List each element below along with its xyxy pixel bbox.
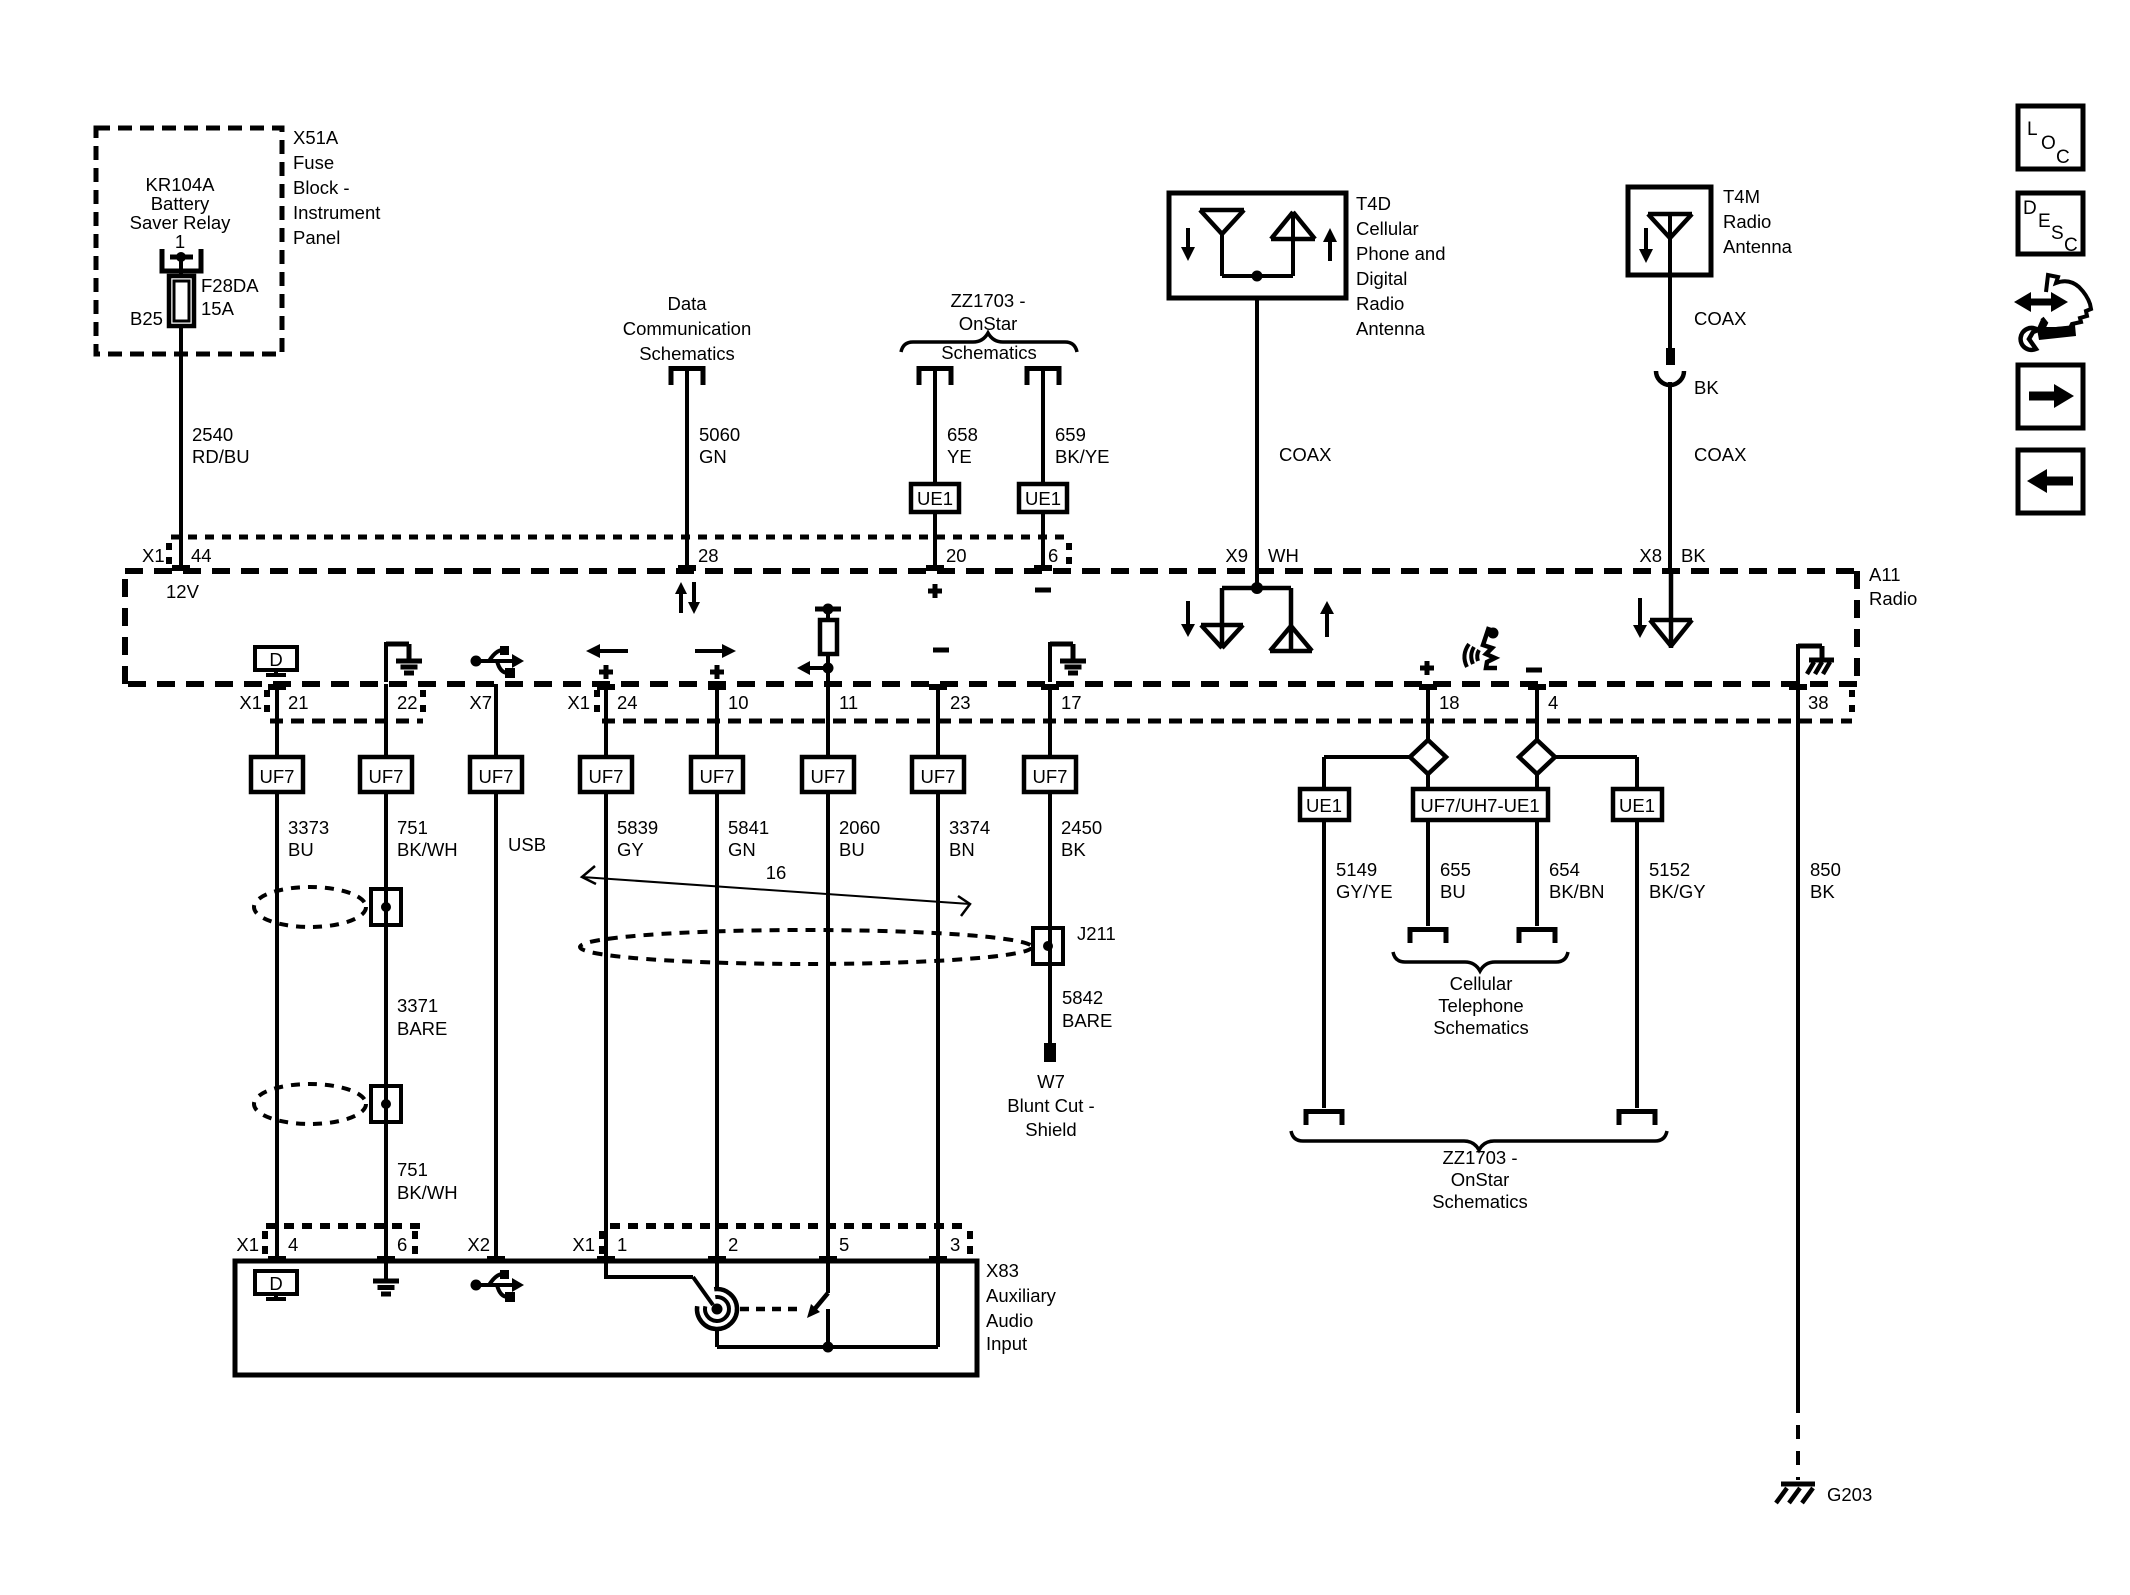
svg-text:Schematics: Schematics	[941, 342, 1037, 363]
svg-text:Digital: Digital	[1356, 268, 1407, 289]
svg-text:5839: 5839	[617, 817, 658, 838]
wire 658 YE upper	[933, 371, 937, 484]
svg-text:E: E	[2038, 211, 2051, 232]
svg-text:44: 44	[191, 545, 212, 566]
icon chassis ground pin 38	[1796, 644, 1800, 684]
pin 18 radio	[1419, 684, 1437, 690]
svg-text:X83: X83	[986, 1260, 1019, 1281]
svg-text:12V: 12V	[166, 581, 200, 602]
svg-text:UF7: UF7	[921, 766, 956, 787]
svg-text:X1: X1	[142, 545, 165, 566]
svg-text:WH: WH	[1268, 545, 1299, 566]
svg-text:UF7: UF7	[369, 766, 404, 787]
svg-text:658: 658	[947, 424, 978, 445]
svg-text:BARE: BARE	[1062, 1010, 1112, 1031]
svg-text:UF7: UF7	[700, 766, 735, 787]
svg-text:Auxiliary: Auxiliary	[986, 1285, 1057, 1306]
wire coax T4M lower to radio pin X8	[1668, 382, 1672, 568]
wire UF7 down column 938	[936, 792, 940, 1261]
svg-text:BK/YE: BK/YE	[1055, 446, 1110, 467]
svg-text:659: 659	[1055, 424, 1086, 445]
inline connector UF7 4	[580, 757, 632, 792]
svg-text:3: 3	[950, 1234, 960, 1255]
wire 658 YE lower to radio pin 20	[933, 512, 937, 568]
pin 6 radio	[1034, 565, 1052, 571]
svg-text:BK/WH: BK/WH	[397, 839, 458, 860]
svg-text:20: 20	[946, 545, 967, 566]
svg-text:BU: BU	[839, 839, 865, 860]
wire radio pin 18 to diamond	[1426, 684, 1430, 740]
antenna T4M box	[1628, 187, 1711, 275]
svg-text:2450: 2450	[1061, 817, 1102, 838]
splice crimp upper wire 751	[371, 889, 401, 925]
svg-text:Communication: Communication	[623, 318, 752, 339]
wire diamond 18 to UE1 left	[1324, 755, 1410, 759]
svg-text:3374: 3374	[949, 817, 990, 838]
fuse F28DA 15A	[169, 276, 194, 326]
svg-text:655: 655	[1440, 859, 1471, 880]
leader line 16	[582, 877, 970, 904]
auxiliary audio input X83 box	[235, 1261, 977, 1375]
wire 659 BK/YE upper	[1041, 371, 1045, 484]
wire 2450 BK to splice J211	[1048, 792, 1052, 1043]
svg-text:D: D	[269, 649, 282, 670]
pin 28 radio	[678, 565, 696, 571]
svg-text:654: 654	[1549, 859, 1580, 880]
icon vehicle data wrench	[2028, 299, 2054, 306]
plus sign pin 20	[928, 589, 942, 594]
svg-text:Cellular: Cellular	[1450, 973, 1513, 994]
svg-text:A11: A11	[1869, 564, 1901, 585]
svg-text:ZZ1703 -: ZZ1703 -	[950, 290, 1025, 311]
svg-text:6: 6	[1048, 545, 1058, 566]
pin 10 radio	[708, 684, 726, 690]
wire 850 BK	[1796, 684, 1800, 1399]
icon earth ground pin 17	[1048, 642, 1052, 682]
inline connector UE1 wire 658	[911, 484, 959, 512]
svg-text:USB: USB	[508, 834, 546, 855]
svg-text:X1: X1	[572, 1234, 595, 1255]
icon microphone speaker	[1464, 644, 1469, 667]
wire 5842 BARE	[1048, 964, 1052, 1043]
svg-text:5: 5	[839, 1234, 849, 1255]
svg-text:21: 21	[288, 692, 309, 713]
icon earth ground X83 pin 6	[384, 1261, 388, 1279]
shield ellipse drain	[580, 930, 1032, 964]
svg-text:X1: X1	[239, 692, 262, 713]
svg-text:C: C	[2056, 147, 2070, 168]
pin 21 radio	[268, 684, 286, 690]
svg-text:Schematics: Schematics	[1433, 1017, 1529, 1038]
wire radio pin 17 to UF7	[1048, 684, 1052, 757]
svg-text:D: D	[2023, 198, 2037, 219]
svg-text:23: 23	[950, 692, 971, 713]
arrow transmit T4D	[1328, 242, 1332, 261]
pin 44 radio	[172, 565, 190, 571]
svg-text:BK/GY: BK/GY	[1649, 881, 1706, 902]
svg-text:850: 850	[1810, 859, 1841, 880]
icon box LOC	[2018, 106, 2083, 169]
svg-text:2540: 2540	[192, 424, 233, 445]
svg-text:UE1: UE1	[1306, 795, 1342, 816]
svg-text:S: S	[2051, 223, 2064, 244]
terminal wire 5152	[1619, 1112, 1655, 1126]
svg-text:Cellular: Cellular	[1356, 218, 1419, 239]
svg-text:Radio: Radio	[1869, 588, 1917, 609]
svg-text:T4D: T4D	[1356, 193, 1391, 214]
pin 24 radio	[597, 684, 615, 690]
svg-text:5841: 5841	[728, 817, 769, 838]
connector line X1 bottom left	[270, 719, 423, 724]
svg-text:Schematics: Schematics	[639, 343, 735, 364]
svg-text:BU: BU	[1440, 881, 1466, 902]
svg-text:D: D	[269, 1273, 282, 1294]
svg-text:X8: X8	[1639, 545, 1662, 566]
svg-text:2: 2	[728, 1234, 738, 1255]
wire 659 BK/YE lower to radio pin 6	[1041, 512, 1045, 568]
svg-text:6: 6	[397, 1234, 407, 1255]
svg-text:5152: 5152	[1649, 859, 1690, 880]
svg-text:BARE: BARE	[397, 1018, 447, 1039]
audio jack X83	[697, 1289, 737, 1329]
pin 4 radio	[1528, 684, 1546, 690]
relay KR104A contact symbol	[162, 249, 201, 271]
antenna transmit radio X9	[1289, 588, 1294, 651]
wire 850 BK dashed section	[1796, 1399, 1800, 1480]
svg-text:OnStar: OnStar	[1451, 1169, 1510, 1190]
icon arrow left pin 24	[600, 649, 628, 653]
svg-text:751: 751	[397, 1159, 428, 1180]
pin 17 radio	[1041, 684, 1059, 690]
svg-text:2060: 2060	[839, 817, 880, 838]
minus sign pin 6	[1035, 588, 1051, 593]
svg-text:GN: GN	[728, 839, 756, 860]
switch link dashed X83	[740, 1307, 802, 1312]
diamond splice pin 4	[1519, 740, 1555, 774]
pin 20 radio	[926, 565, 944, 571]
pin flare X83 column 606	[597, 1256, 615, 1262]
svg-text:3371: 3371	[397, 995, 438, 1016]
wire 5149 GY/YE	[1322, 820, 1326, 1108]
svg-text:F28DA: F28DA	[201, 275, 259, 296]
svg-text:UF7: UF7	[811, 766, 846, 787]
svg-text:17: 17	[1061, 692, 1082, 713]
connector line X83 X1 right	[610, 1223, 965, 1229]
plus sign pin 24	[599, 670, 613, 675]
junction dot X9 splitter	[1251, 582, 1263, 594]
wire 2540 RD/BU fuse to radio pin 44	[179, 326, 183, 568]
svg-text:BK: BK	[1061, 839, 1086, 860]
svg-text:3373: 3373	[288, 817, 329, 838]
connector line X83 X1 left	[266, 1223, 420, 1229]
pin flare X83 column 828	[819, 1256, 837, 1262]
wire UF7 down column 606	[604, 792, 608, 1261]
svg-text:BN: BN	[949, 839, 975, 860]
inline coax connector T4M	[1666, 348, 1675, 365]
icon usb pin X7	[471, 656, 482, 667]
inline connector UF7/UH7-UE1	[1413, 789, 1548, 820]
svg-text:Telephone: Telephone	[1438, 995, 1523, 1016]
svg-text:10: 10	[728, 692, 749, 713]
wire radio pin 23 to UF7	[936, 684, 940, 757]
icon usb X83 pin X2	[471, 1280, 482, 1291]
wire coax T4M upper	[1668, 275, 1672, 350]
icon box arrow right	[2018, 365, 2083, 428]
antenna T4D box	[1169, 193, 1346, 298]
svg-text:751: 751	[397, 817, 428, 838]
svg-text:Audio: Audio	[986, 1310, 1033, 1331]
ground G203	[1781, 1482, 1815, 1487]
connector line X1 bottom right	[602, 719, 1852, 724]
wire UF7 down column 496	[494, 792, 498, 1261]
svg-text:X51A: X51A	[293, 127, 339, 148]
svg-text:Data: Data	[667, 293, 707, 314]
wire radio pin 24 to UF7	[604, 684, 608, 757]
plus sign pin 18	[1420, 666, 1434, 671]
off-page connector wire 658	[919, 369, 951, 386]
inline connector UE1 left	[1300, 789, 1349, 820]
twisted pair ellipse lower	[254, 1084, 366, 1124]
pin flare X83 column 938	[929, 1256, 947, 1262]
wire radio pin 11 to UF7	[826, 684, 830, 757]
svg-text:15A: 15A	[201, 298, 235, 319]
inline connector UF7 2	[360, 757, 412, 792]
splice J211	[1033, 928, 1063, 964]
svg-text:COAX: COAX	[1279, 444, 1331, 465]
svg-text:J211: J211	[1077, 923, 1116, 944]
icon display pin 21	[255, 647, 297, 670]
svg-text:18: 18	[1439, 692, 1460, 713]
pin flare X83 column 386	[377, 1256, 395, 1262]
arrow receive T4M	[1644, 228, 1648, 249]
inline connector UF7 8	[1024, 757, 1076, 792]
svg-text:UF7: UF7	[479, 766, 514, 787]
arrow receive radio X9	[1186, 601, 1190, 624]
wire UF7 down column 717	[715, 792, 719, 1261]
svg-text:Antenna: Antenna	[1356, 318, 1426, 339]
brace ZZ1703 OnStar top	[901, 333, 1077, 352]
svg-text:Battery: Battery	[151, 193, 210, 214]
svg-text:Phone and: Phone and	[1356, 243, 1446, 264]
svg-text:UF7: UF7	[260, 766, 295, 787]
arrow receive T4D	[1186, 228, 1190, 247]
minus sign pin 23	[933, 648, 949, 653]
svg-text:Blunt Cut -: Blunt Cut -	[1007, 1095, 1094, 1116]
icon earth ground pin 22	[384, 642, 388, 682]
svg-text:RD/BU: RD/BU	[192, 446, 250, 467]
wire UF7 down column 386	[384, 792, 388, 1261]
svg-text:ZZ1703 -: ZZ1703 -	[1442, 1147, 1517, 1168]
svg-text:COAX: COAX	[1694, 444, 1746, 465]
svg-text:UE1: UE1	[1619, 795, 1655, 816]
inline connector UF7 3	[470, 757, 522, 792]
icon display X83 pin 4	[255, 1271, 297, 1294]
svg-text:BK: BK	[1694, 377, 1719, 398]
pin 23 radio	[929, 684, 947, 690]
svg-text:GY/YE: GY/YE	[1336, 881, 1393, 902]
svg-text:22: 22	[397, 692, 418, 713]
wire 5060 GN to radio pin 28	[685, 371, 689, 568]
svg-text:5060: 5060	[699, 424, 740, 445]
svg-text:1: 1	[617, 1234, 627, 1255]
svg-text:11: 11	[839, 692, 858, 713]
wire coax T4D to radio pin X9	[1255, 298, 1259, 586]
svg-text:Schematics: Schematics	[1432, 1191, 1528, 1212]
wire radio pin X7 to UF7	[494, 684, 498, 757]
wire UF7 down column 828	[826, 792, 830, 1261]
svg-text:Saver Relay: Saver Relay	[130, 212, 232, 233]
svg-text:X2: X2	[467, 1234, 490, 1255]
svg-text:Block -: Block -	[293, 177, 350, 198]
inline connector UF7 6	[802, 757, 854, 792]
wire diamond 4 down	[1535, 774, 1539, 789]
switch X83 pin 5	[826, 1261, 830, 1293]
arrow receive radio X8	[1638, 598, 1642, 625]
svg-text:BK/WH: BK/WH	[397, 1182, 458, 1203]
svg-text:X9: X9	[1225, 545, 1248, 566]
svg-text:Fuse: Fuse	[293, 152, 334, 173]
brace cellular telephone	[1393, 952, 1568, 971]
fuse block X51A dashed outline	[96, 128, 282, 354]
svg-text:KR104A: KR104A	[146, 174, 216, 195]
svg-text:UF7: UF7	[589, 766, 624, 787]
svg-text:Input: Input	[986, 1333, 1027, 1354]
terminal wire 5149	[1306, 1112, 1342, 1126]
svg-text:Radio: Radio	[1356, 293, 1404, 314]
svg-text:Antenna: Antenna	[1723, 236, 1793, 257]
wire X83 pin 2 to jack	[715, 1261, 719, 1290]
svg-text:24: 24	[617, 692, 638, 713]
svg-text:X1: X1	[236, 1234, 259, 1255]
inline connector UE1 right	[1613, 789, 1662, 820]
wire diamond 4 to UE1 right	[1555, 755, 1637, 759]
wire relay to fuse	[179, 257, 183, 276]
radio A11 dashed box	[125, 568, 1857, 574]
off-page connector data communication	[671, 369, 703, 386]
svg-text:GY: GY	[617, 839, 644, 860]
junction dot X83	[823, 1342, 834, 1353]
svg-text:5842: 5842	[1062, 987, 1103, 1008]
svg-text:BU: BU	[288, 839, 314, 860]
svg-text:16: 16	[766, 862, 787, 883]
svg-text:BK: BK	[1810, 881, 1835, 902]
antenna receive radio X9	[1220, 588, 1225, 648]
svg-text:38: 38	[1808, 692, 1829, 713]
splice crimp lower wire 751	[371, 1086, 401, 1122]
terminal wire 655	[1410, 930, 1446, 944]
svg-text:28: 28	[698, 545, 719, 566]
minus sign pin 4	[1526, 668, 1542, 673]
svg-text:BK/BN: BK/BN	[1549, 881, 1605, 902]
wire radio pin 10 to UF7	[715, 684, 719, 757]
svg-text:UF7: UF7	[1033, 766, 1068, 787]
diamond splice pin 18	[1410, 740, 1446, 774]
inline connector UE1 wire 659	[1019, 484, 1067, 512]
pin flare X83 column 496	[487, 1256, 505, 1262]
icon bidirectional arrows pin 28	[679, 594, 683, 613]
svg-text:YE: YE	[947, 446, 972, 467]
blunt cut W7	[1044, 1043, 1056, 1062]
pin 38 radio	[1789, 684, 1807, 690]
antenna element T4M	[1648, 212, 1692, 217]
terminal wire 654	[1519, 930, 1555, 944]
svg-text:X1: X1	[567, 692, 590, 713]
junction dot T4D	[1222, 274, 1293, 278]
wire 654 BK/BN	[1535, 820, 1539, 926]
icon arrow right pin 10	[695, 649, 722, 653]
icon box arrow left	[2018, 450, 2083, 513]
pin flare X83 column 277	[268, 1256, 286, 1262]
connector line X1 top	[171, 535, 1065, 540]
inline connector UF7 1	[251, 757, 303, 792]
svg-text:UF7/UH7-UE1: UF7/UH7-UE1	[1420, 795, 1539, 816]
wire 5152 BK/GY	[1635, 820, 1639, 1108]
svg-text:COAX: COAX	[1694, 308, 1746, 329]
svg-text:Shield: Shield	[1025, 1119, 1076, 1140]
svg-text:5149: 5149	[1336, 859, 1377, 880]
wire jack sleeve to X83 pin 3	[715, 1329, 719, 1347]
wire radio pin 4 to diamond	[1535, 684, 1539, 740]
svg-text:B25: B25	[130, 308, 163, 329]
svg-text:Panel: Panel	[293, 227, 340, 248]
svg-text:T4M: T4M	[1723, 186, 1760, 207]
arrow transmit radio X9	[1325, 614, 1329, 637]
svg-text:C: C	[2064, 235, 2078, 256]
wire X83 pin 1 to jack	[604, 1261, 608, 1277]
antenna receive radio X8	[1669, 571, 1674, 648]
icon box DESC	[2018, 193, 2083, 254]
svg-text:Radio: Radio	[1723, 211, 1771, 232]
plus sign pin 10	[710, 670, 724, 675]
svg-text:G203: G203	[1827, 1484, 1872, 1505]
svg-text:BK: BK	[1681, 545, 1706, 566]
svg-text:UE1: UE1	[1025, 488, 1061, 509]
svg-text:1: 1	[175, 231, 185, 252]
wire 655 BU	[1426, 820, 1430, 926]
svg-text:UE1: UE1	[917, 488, 953, 509]
svg-text:GN: GN	[699, 446, 727, 467]
svg-text:L: L	[2027, 119, 2038, 140]
wire radio pin 21 to UF7	[275, 684, 279, 757]
svg-text:4: 4	[288, 1234, 298, 1255]
svg-text:O: O	[2041, 133, 2056, 154]
off-page connector wire 659	[1027, 369, 1059, 386]
wire UF7 down column 277	[275, 792, 279, 1261]
svg-text:4: 4	[1548, 692, 1558, 713]
wire radio pin 22 to UF7	[384, 684, 388, 757]
antenna element transmit T4D	[1271, 237, 1315, 242]
brace ZZ1703 OnStar bottom	[1291, 1131, 1667, 1150]
wire diamond 18 down	[1426, 774, 1430, 789]
svg-text:X7: X7	[469, 692, 492, 713]
antenna element receive T4D	[1200, 208, 1244, 213]
pin flare X83 column 717	[708, 1256, 726, 1262]
inline connector UF7 7	[912, 757, 964, 792]
icon resistor mute pin 11	[815, 607, 841, 612]
svg-text:Instrument: Instrument	[293, 202, 380, 223]
inline connector UF7 5	[691, 757, 743, 792]
svg-text:W7: W7	[1037, 1071, 1065, 1092]
twisted pair ellipse upper	[254, 887, 366, 927]
